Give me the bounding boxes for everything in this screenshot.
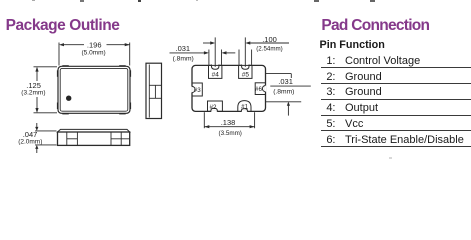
svg-text:.031: .031 — [278, 77, 293, 86]
svg-text:#3: #3 — [194, 87, 201, 94]
svg-text:(3.5mm): (3.5mm) — [218, 130, 241, 137]
svg-text:(2.54mm): (2.54mm) — [256, 45, 282, 52]
svg-text:(3.2mm): (3.2mm) — [21, 90, 45, 97]
svg-text:#5: #5 — [242, 71, 250, 78]
svg-text:#4: #4 — [212, 71, 220, 78]
svg-text:(.8mm): (.8mm) — [273, 88, 294, 95]
svg-text:#1: #1 — [241, 103, 248, 110]
svg-text:.196: .196 — [87, 41, 102, 50]
svg-text:#6: #6 — [255, 86, 262, 93]
svg-text:.138: .138 — [221, 118, 236, 127]
svg-text:#2: #2 — [210, 104, 217, 111]
svg-text:.100: .100 — [262, 35, 277, 44]
svg-text:.031: .031 — [175, 44, 190, 53]
svg-text:(2.0mm): (2.0mm) — [18, 139, 42, 146]
svg-text:(5.0mm): (5.0mm) — [81, 49, 105, 56]
svg-text:(.8mm): (.8mm) — [173, 56, 194, 63]
